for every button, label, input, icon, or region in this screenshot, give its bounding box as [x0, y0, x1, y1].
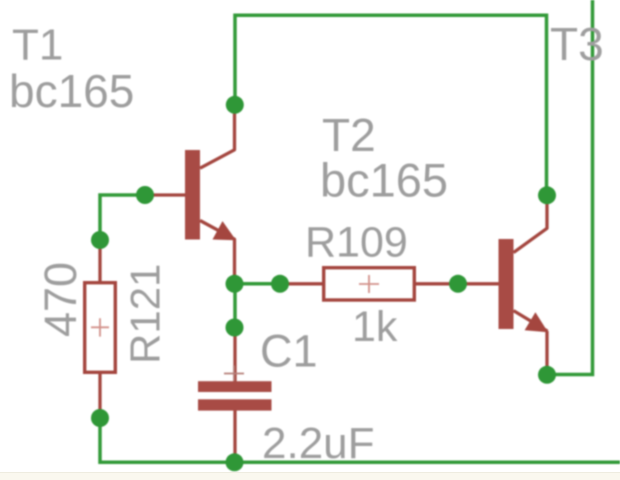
svg-text:T1: T1: [12, 21, 63, 70]
svg-text:C1: C1: [260, 326, 318, 377]
resistor R121 bottom pin: [98, 374, 101, 419]
junction dot R109 left node: [271, 275, 289, 293]
transistor T1 emitter arrow: [213, 221, 237, 240]
junction dot collector T1 node: [226, 96, 244, 114]
transistor T1 body bar: [185, 150, 200, 240]
junction dot R121 bottom node: [91, 409, 109, 427]
capacitor C1 top plate: [198, 381, 272, 392]
svg-text:1k: 1k: [352, 303, 398, 351]
transistor T3 emitter pin: [514, 311, 548, 375]
transistor T3 base pin: [458, 282, 499, 285]
junction dot T3 collector node: [538, 186, 556, 204]
wire net VCC top rail: [235, 15, 547, 195]
junction dot R121 top node: [91, 231, 109, 249]
transistor T1 emitter pin: [200, 221, 235, 284]
transistor T1 base pin: [145, 193, 186, 196]
wire right-side rail: [547, 0, 593, 375]
svg-text:R121: R121: [122, 264, 169, 364]
resistor R121 body: [85, 283, 116, 373]
resistor R109 right pin: [414, 282, 458, 285]
resistor R109 body: [324, 268, 415, 300]
svg-text:2.2uF: 2.2uF: [262, 419, 375, 468]
capacitor C1 bottom pin: [233, 411, 236, 463]
wire emitter node horizontal: [235, 282, 280, 286]
resistor R121 top pin: [98, 240, 101, 282]
transistor T3 collector pin: [514, 196, 548, 253]
transistor T3 emitter arrow: [525, 312, 548, 332]
junction dot T1 emitter node: [226, 275, 244, 293]
svg-text:T3: T3: [550, 18, 604, 70]
wire T1 base net: [100, 195, 145, 240]
junction dot T1 base node: [136, 186, 154, 204]
wire bottom ground rail: [100, 418, 620, 462]
capacitor C1 bottom plate: [198, 399, 272, 410]
junction dot ground rail node: [226, 453, 244, 471]
junction dot T3 emitter node: [538, 366, 556, 384]
junction dot C1 top node: [226, 319, 244, 337]
wire vertical to C1: [233, 284, 237, 328]
resistor R109 left pin: [280, 282, 324, 285]
svg-text:bc165: bc165: [9, 65, 134, 117]
svg-text:470: 470: [35, 262, 86, 337]
capacitor C1 top pin: [233, 328, 236, 383]
transistor T1 collector pin: [200, 105, 235, 168]
status bar strip at bottom: [0, 472, 620, 480]
junction dot T3 base node: [449, 275, 467, 293]
capacitor C1 origin cross: [224, 366, 244, 382]
svg-text:bc165: bc165: [320, 154, 448, 207]
svg-text:R109: R109: [305, 219, 408, 267]
transistor T3 body bar: [499, 239, 514, 329]
resistor R121 origin cross: [91, 318, 109, 336]
resistor R109 origin cross: [359, 275, 379, 293]
